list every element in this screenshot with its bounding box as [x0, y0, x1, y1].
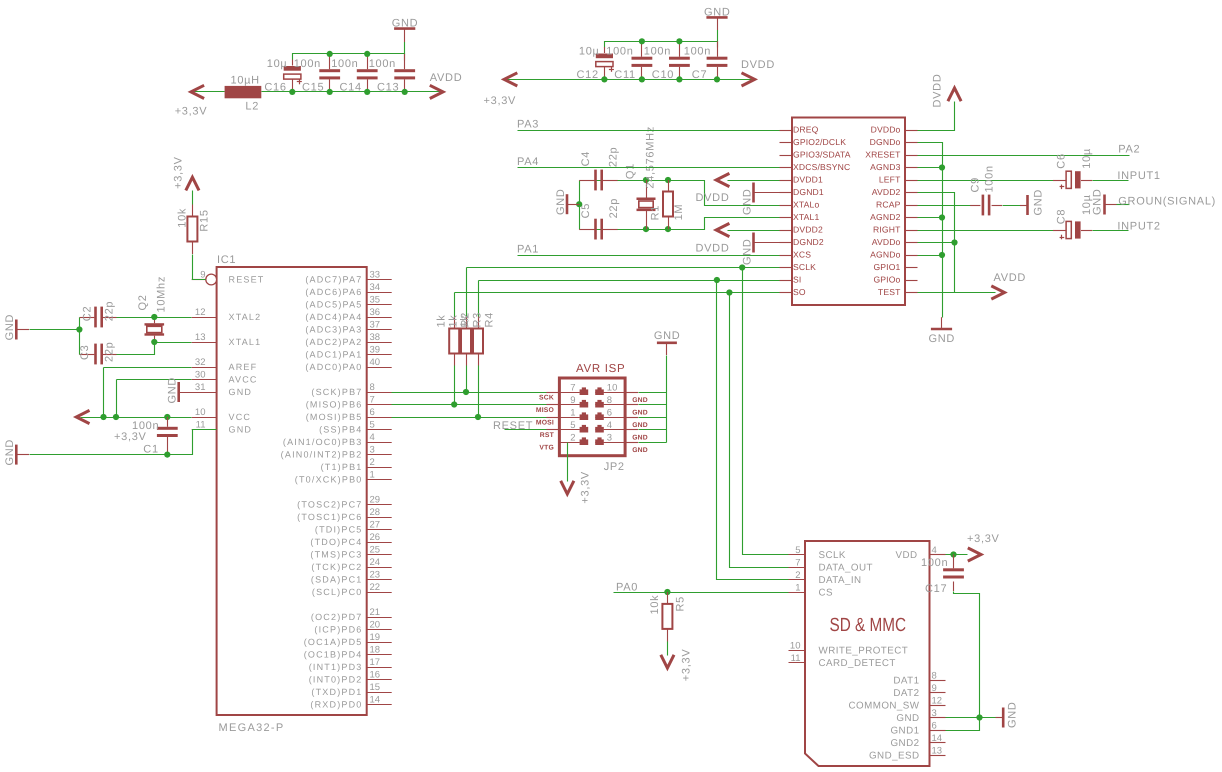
capacitor C2 (22p) [94, 307, 103, 328]
pin name GND2 [890, 738, 919, 749]
svg-text:100n: 100n [369, 58, 396, 70]
svg-text:C1: C1 [143, 444, 158, 456]
resistor R1 leads [668, 180, 670, 229]
svg-text:C14: C14 [340, 82, 362, 94]
crystal Q2 (10Mhz) [145, 317, 165, 342]
svg-text:R5: R5 [675, 596, 687, 611]
resistor R5 (10k) [662, 604, 672, 629]
value 100n of C14 [331, 58, 358, 70]
pin name DATA_OUT [819, 562, 873, 573]
svg-text:100n: 100n [331, 58, 358, 70]
junction AGNDo [939, 252, 945, 258]
capacitor C8 (10µ) [1060, 221, 1081, 239]
pin number 5 [570, 420, 575, 431]
supply +3,3V arrow (left of L2) [191, 85, 204, 98]
pin 12 stub [930, 705, 946, 707]
svg-text:(TOSC2)PC7: (TOSC2)PC7 [297, 500, 362, 510]
junction [601, 76, 607, 82]
pin number 2 [795, 570, 800, 581]
pin name (ADC4)PA4 [305, 312, 362, 322]
resistor R4 (1k) [473, 329, 483, 354]
pin name DAT1 [893, 675, 919, 686]
pin 7 stub [546, 392, 559, 394]
svg-text:DVDD2: DVDD2 [793, 225, 823, 235]
net label RESET [493, 420, 533, 432]
name IC1 [217, 254, 236, 266]
svg-text:11: 11 [791, 653, 801, 664]
net label PA4 [517, 156, 539, 168]
pin 40 stub [367, 367, 392, 369]
pin label GND [632, 447, 648, 454]
pin label GND [632, 397, 648, 404]
name C4 [580, 151, 592, 166]
pin number 20 [370, 619, 381, 630]
pin number 6 [932, 720, 937, 731]
svg-text:(TDO)PC4: (TDO)PC4 [310, 537, 362, 547]
svg-text:L2: L2 [245, 101, 259, 113]
net label INPUT2 [1117, 220, 1160, 232]
svg-text:DGNDo: DGNDo [870, 137, 901, 147]
pin number 12 [195, 307, 206, 318]
svg-text:GND: GND [1091, 188, 1103, 215]
pin number 9 [932, 683, 937, 694]
svg-text:VTG: VTG [539, 444, 554, 451]
svg-text:DGND2: DGND2 [793, 237, 824, 247]
svg-text:C11: C11 [614, 69, 635, 81]
svg-text:(MOSI)PB5: (MOSI)PB5 [306, 412, 363, 422]
pin 9 stub [930, 692, 946, 694]
junction SI/SD [714, 277, 720, 283]
wire R4 top [478, 281, 480, 317]
junction SD gnd [976, 714, 982, 720]
pin label MISO [536, 407, 554, 414]
pin number 3 [370, 444, 375, 455]
svg-text:(SDA)PC1: (SDA)PC1 [311, 575, 363, 585]
junction [676, 38, 682, 44]
wire [404, 30, 406, 54]
junction Q2 bottom [151, 339, 157, 345]
svg-text:6: 6 [932, 720, 937, 731]
svg-text:6: 6 [370, 407, 375, 418]
value 1k of R2 [436, 314, 448, 327]
svg-text:(RXD)PD0: (RXD)PD0 [310, 700, 362, 710]
wire SO net [455, 292, 780, 294]
supply +3,3V arrow (ISP VTG) [561, 481, 574, 494]
svg-text:RST: RST [540, 432, 555, 439]
svg-text:(TOSC1)PC6: (TOSC1)PC6 [297, 512, 362, 522]
pin name (INT0)PD2 [309, 675, 363, 685]
svg-text:38: 38 [370, 332, 381, 343]
pin XTAL1 stub [780, 217, 793, 219]
pin DVDD2 stub [780, 230, 793, 232]
svg-text:C16: C16 [264, 82, 286, 94]
svg-text:12: 12 [932, 695, 943, 706]
pin name (OC2)PD7 [311, 612, 363, 622]
junction Q2 top [151, 314, 157, 320]
pin name AREF [229, 362, 258, 372]
pin name GND [229, 387, 253, 397]
name C11 [614, 69, 635, 81]
svg-text:40: 40 [370, 357, 381, 368]
junction gnd rail [76, 326, 82, 332]
pin name (ICP)PD6 [314, 625, 362, 635]
svg-text:C4: C4 [580, 151, 592, 166]
pin number 8 [370, 382, 375, 393]
pin number 4 [370, 432, 375, 443]
pin name (AIN0/INT2)PB2 [281, 450, 363, 460]
svg-text:VCC: VCC [229, 412, 252, 422]
pin 22 stub [367, 592, 392, 594]
wire crystal bottom node [580, 218, 780, 230]
pin 3 line and pad [595, 437, 625, 445]
svg-text:GND: GND [654, 330, 681, 342]
pin 32 stub [192, 367, 217, 369]
pin name (AIN1/OC0)PB3 [283, 437, 363, 447]
pin name (SDA)PC1 [311, 575, 363, 585]
wire [618, 180, 705, 182]
pin number 11 [196, 419, 206, 430]
name C1 [143, 444, 158, 456]
ground GND (signal ground) [1091, 188, 1116, 215]
svg-text:3: 3 [607, 432, 612, 443]
pin number 32 [195, 357, 206, 368]
capacitor C9 (100n) [982, 195, 991, 216]
name R5 [675, 596, 687, 611]
svg-text:XCS: XCS [793, 250, 811, 260]
value 1k of R4 [459, 314, 471, 327]
svg-text:SCK: SCK [539, 394, 554, 401]
svg-text:19: 19 [370, 632, 381, 643]
ground GND (below codec) [929, 317, 956, 345]
wire DGNDo to ground rail [918, 143, 943, 318]
pin number 24 [370, 557, 381, 568]
svg-text:28: 28 [370, 507, 381, 518]
svg-text:10: 10 [195, 407, 206, 418]
svg-text:(TXD)PD1: (TXD)PD1 [311, 687, 362, 697]
svg-text:RIGHT: RIGHT [873, 225, 901, 235]
label AVDD [430, 72, 463, 84]
wire C2 to XTAL2 [117, 317, 192, 319]
capacitor C14 (100n) [357, 69, 378, 79]
pin name DVDD2 [793, 225, 823, 235]
pin 5 stub [546, 429, 559, 431]
wire AGND3 [918, 167, 943, 169]
svg-text:29: 29 [370, 494, 381, 505]
pin name DREQ [793, 125, 819, 135]
wire SCLK down to SD card [743, 268, 789, 555]
wire [454, 317, 456, 366]
supply +3,3V arrow (VCC) [76, 410, 89, 423]
svg-text:GPIO2/DCLK: GPIO2/DCLK [793, 137, 846, 147]
wire C3 right [117, 343, 192, 355]
wire C17 to gnd rail [954, 592, 980, 718]
svg-text:1: 1 [795, 582, 800, 593]
pin 10 line and pad [595, 387, 625, 395]
ground GND (top of DVDD bank) [704, 7, 731, 19]
pin 6 stub [930, 730, 946, 732]
pin name AVDDo [872, 237, 901, 247]
svg-text:13: 13 [195, 332, 206, 343]
wire R5 to +3,3V [667, 642, 669, 656]
name C5 [580, 203, 592, 218]
capacitor C12 (10µ) [596, 54, 614, 72]
svg-text:RESET: RESET [229, 275, 265, 285]
pin 34 stub [367, 292, 392, 294]
pin GPIO2/DCLK stub [780, 142, 793, 144]
svg-text:1k: 1k [436, 314, 448, 327]
pin 35 stub [367, 304, 392, 306]
pin name (SCL)PC0 [312, 587, 363, 597]
value 100n of C10 [644, 45, 671, 57]
value 22p of C5 [608, 198, 620, 218]
wire RCAP to C9 [918, 205, 971, 207]
pin name VCC [229, 412, 252, 422]
name Q2 [137, 294, 149, 310]
svg-text:GND: GND [167, 377, 179, 404]
pin number 13 [195, 332, 206, 343]
junction [676, 76, 682, 82]
wire R2 top [454, 293, 456, 317]
wire VTG down [567, 443, 569, 482]
junction [100, 414, 106, 420]
pin number 23 [370, 569, 381, 580]
pin number 7 [570, 382, 575, 393]
resistor R2 (1k) [449, 329, 459, 354]
pin XCS stub [780, 255, 793, 257]
pin name (OC1A)PD5 [304, 637, 363, 647]
value 100n of C11 [606, 45, 633, 57]
label +3,3V (rotated) [580, 471, 592, 504]
svg-text:C3: C3 [79, 345, 91, 360]
svg-text:JP2: JP2 [604, 461, 625, 473]
svg-text:GND: GND [229, 387, 253, 397]
svg-text:AGND2: AGND2 [870, 212, 900, 222]
svg-text:5: 5 [795, 545, 800, 556]
junction SO/SD [726, 289, 732, 295]
svg-text:22: 22 [370, 582, 381, 593]
svg-text:XTAL2: XTAL2 [229, 312, 262, 322]
wire XRESET to PA2 [918, 155, 1130, 157]
wire VCC row [81, 417, 192, 419]
pin GPIOo stub [905, 280, 918, 282]
pin number 14 [370, 694, 381, 705]
junction [113, 414, 119, 420]
pin name (ADC2)PA2 [305, 337, 362, 347]
pin number 9 [570, 395, 575, 406]
wire pin6 gnd [639, 417, 667, 419]
pin 18 stub [367, 654, 392, 656]
pin 33 stub [367, 279, 392, 281]
svg-text:11: 11 [196, 419, 206, 430]
name C8 [1056, 209, 1068, 224]
pin GPIO3/SDATA stub [780, 155, 793, 157]
svg-text:PA2: PA2 [1118, 144, 1140, 156]
wire [367, 54, 369, 92]
junction R3 [463, 389, 469, 395]
wire AVCC [117, 379, 192, 381]
supply AVDD arrow (right) [430, 85, 443, 98]
svg-text:9: 9 [570, 395, 575, 406]
wire pin4 gnd [639, 429, 667, 431]
value MEGA32-P [219, 722, 285, 734]
resistor R1 (1M) [663, 192, 673, 217]
svg-text:8: 8 [932, 670, 937, 681]
wire gnd to rail [30, 329, 80, 331]
pin number 2 [570, 432, 575, 443]
pin name (SS)PB4 [319, 425, 362, 435]
ground GND (crystal Q2) [4, 314, 29, 341]
supply DVDD arrow (DVDD2) [716, 223, 729, 236]
pin 10 stub [789, 650, 806, 652]
pin 9 RESET stub with inversion circle [192, 274, 217, 285]
capacitor C10 (100n) [669, 57, 690, 67]
svg-text:24,576MHz: 24,576MHz [645, 126, 657, 189]
svg-text:32: 32 [195, 357, 206, 368]
svg-text:GND: GND [229, 425, 253, 435]
pin 7 stub [367, 404, 392, 406]
pin number 2 [370, 457, 375, 468]
svg-text:SCLK: SCLK [819, 550, 846, 561]
svg-text:(TMS)PC3: (TMS)PC3 [310, 550, 362, 560]
junction R5 top [664, 589, 670, 595]
svg-text:DVDD: DVDD [932, 74, 944, 108]
wire R15 to RESET pin [193, 255, 206, 280]
svg-text:31: 31 [195, 382, 206, 393]
svg-text:SCLK: SCLK [793, 262, 816, 272]
wire AVDD2 rail [918, 193, 955, 293]
wire AGND2 [918, 217, 943, 219]
wire ISP gnd rail [666, 356, 668, 443]
label +3,3V (rotated) [173, 156, 185, 189]
svg-text:(ADC5)PA5: (ADC5)PA5 [305, 300, 362, 310]
capacitor C1 (100n) [157, 427, 178, 437]
svg-text:24: 24 [370, 557, 381, 568]
pin 30 stub [192, 379, 217, 381]
junction [164, 414, 170, 420]
svg-text:14: 14 [932, 733, 943, 744]
value 100n of C9 [984, 165, 996, 192]
wire AREF rail down [103, 368, 105, 418]
pin number 3 [607, 432, 612, 443]
svg-text:17: 17 [370, 657, 381, 668]
svg-text:(T1)PB1: (T1)PB1 [321, 462, 363, 472]
wire [262, 91, 443, 93]
svg-text:C9: C9 [970, 177, 982, 192]
junction [364, 51, 370, 57]
ground GND (crystal caps) [555, 188, 579, 215]
pin number 35 [370, 294, 381, 305]
pin name (INT1)PD3 [309, 662, 363, 672]
wire C1 gnd row [30, 430, 217, 455]
label DVDD [696, 242, 730, 254]
value 22p of C2 [104, 301, 116, 321]
svg-text:(AIN0/INT2)PB2: (AIN0/INT2)PB2 [281, 450, 363, 460]
svg-text:INPUT1: INPUT1 [1117, 170, 1160, 182]
pin name GPIO1 [873, 262, 900, 272]
pin name TEST [878, 287, 901, 297]
svg-text:(ADC3)PA3: (ADC3)PA3 [305, 325, 362, 335]
ground GND (C1) [4, 439, 29, 466]
pin number 28 [370, 507, 381, 518]
svg-text:(ADC7)PA7: (ADC7)PA7 [305, 275, 362, 285]
name C7 [692, 69, 707, 81]
pin AVDDo stub [905, 242, 918, 244]
pin name COMMON_SW [849, 700, 920, 711]
wire [604, 47, 606, 79]
pin 2 stub [789, 579, 806, 581]
name JP2 [604, 461, 625, 473]
pin 26 stub [367, 542, 392, 544]
pin name XTAL2 [229, 312, 262, 322]
pin number 21 [370, 607, 381, 618]
pin number 30 [195, 369, 206, 380]
supply +3,3V arrow (R15) [186, 177, 199, 190]
svg-text:C13: C13 [377, 82, 399, 94]
wire R4 bottom [478, 366, 480, 418]
pin 8 stub [625, 404, 638, 406]
svg-text:R15: R15 [199, 209, 211, 231]
pin AGNDo stub [905, 255, 918, 257]
pin name GND_ESD [869, 750, 920, 761]
pin number 1 [795, 582, 800, 593]
name C15 [302, 82, 324, 94]
svg-text:SI: SI [793, 275, 801, 285]
svg-text:2: 2 [795, 570, 800, 581]
pin 11 stub [192, 429, 217, 431]
value 24,576MHz of Q1 [645, 126, 657, 189]
svg-text:GPIOo: GPIOo [873, 275, 900, 285]
pin 1 stub [367, 479, 392, 481]
svg-text:(ADC0)PA0: (ADC0)PA0 [305, 362, 362, 372]
pin AGND3 stub [905, 167, 918, 169]
pin name (RXD)PD0 [310, 700, 362, 710]
svg-text:GND2: GND2 [890, 738, 919, 749]
label DVDD [696, 192, 730, 204]
pin name DAT2 [893, 688, 919, 699]
wire [478, 317, 480, 366]
svg-text:10: 10 [607, 382, 618, 393]
svg-text:C7: C7 [692, 69, 707, 81]
svg-text:TEST: TEST [878, 287, 901, 297]
svg-text:GPIO1: GPIO1 [873, 262, 900, 272]
wire [292, 60, 294, 92]
svg-text:GND1: GND1 [890, 725, 919, 736]
capacitor C4 (22p) [594, 170, 603, 191]
name Q1 [624, 163, 636, 179]
pin SI stub [780, 280, 793, 282]
pin 28 stub [367, 517, 392, 519]
pin DVDDo stub [905, 130, 918, 132]
pin number 38 [370, 332, 381, 343]
svg-text:MEGA32-P: MEGA32-P [219, 722, 285, 734]
ground GND (SD) [996, 701, 1019, 728]
pin 2 line and pad [559, 437, 588, 445]
svg-text:AVDD: AVDD [994, 272, 1027, 284]
svg-text:DAT1: DAT1 [893, 675, 919, 686]
svg-text:+3,3V: +3,3V [681, 649, 693, 682]
svg-text:C10: C10 [652, 69, 674, 81]
wire C6 to INPUT1 [1093, 180, 1129, 182]
pin number 22 [370, 582, 381, 593]
name C6 [1056, 153, 1068, 168]
svg-text:AVCC: AVCC [229, 375, 258, 385]
pin name RESET [229, 275, 265, 285]
pin 9 line and pad [559, 400, 588, 408]
svg-text:C2: C2 [82, 306, 94, 321]
svg-text:(MISO)PB6: (MISO)PB6 [306, 400, 363, 410]
svg-text:C6: C6 [1056, 153, 1068, 168]
wire SD GND pin [946, 717, 996, 719]
